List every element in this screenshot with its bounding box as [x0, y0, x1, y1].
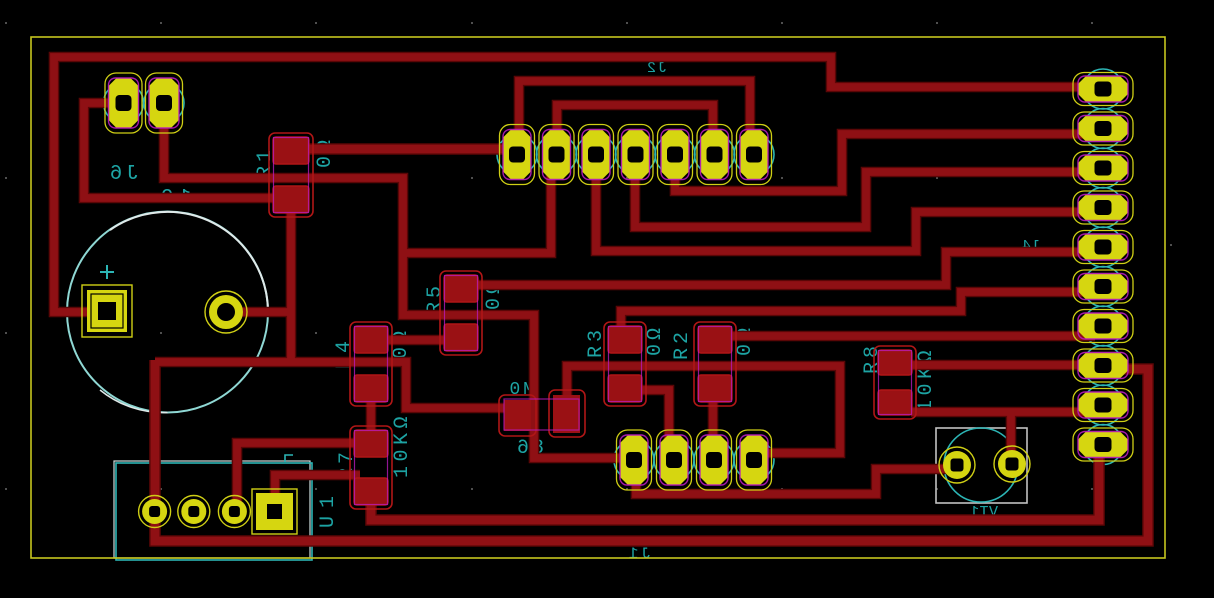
svg-text:J1: J1	[626, 545, 651, 563]
svg-text:J6: J6	[106, 163, 139, 186]
svg-text:R2: R2	[671, 328, 694, 360]
svg-text:10KΩ: 10KΩ	[915, 346, 938, 412]
svg-text:J2: J2	[645, 60, 667, 77]
svg-text:0Ω: 0Ω	[644, 324, 667, 356]
svg-text:10KΩ: 10KΩ	[391, 412, 414, 478]
svg-text:U1: U1	[317, 488, 340, 528]
